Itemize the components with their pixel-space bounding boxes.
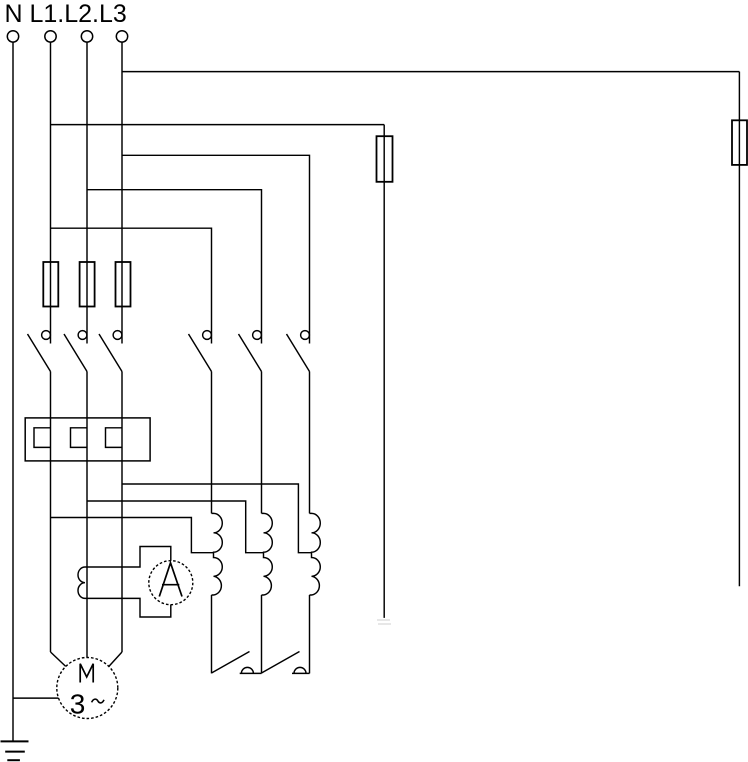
wire winding 2 tap to phase 2 xyxy=(87,501,264,553)
motor label tilde xyxy=(92,699,104,703)
wire tap L1 to control fuse xyxy=(51,124,385,126)
breaker QF pole 2 contact xyxy=(64,331,87,372)
wire control feeder right vertical xyxy=(738,72,740,587)
wire tap L3 to contactor pole 3 xyxy=(122,155,310,343)
wire tap L2 to contactor pole 2 xyxy=(87,190,262,344)
fuse FU4 xyxy=(377,136,393,182)
terminal N xyxy=(7,31,18,42)
wire winding 3 tap to phase 3 xyxy=(122,484,312,553)
wire winding 2 bottom xyxy=(261,595,263,673)
wire tap L3 to control fuse right xyxy=(122,71,739,73)
wire L1 vertical lower xyxy=(50,372,52,653)
wire neutral to motor xyxy=(13,697,59,699)
thermal relay FR heater 3 xyxy=(106,428,123,448)
wire N vertical xyxy=(12,42,14,741)
wire contactor pole 1 to winding 1 xyxy=(211,372,213,514)
wire L3 vertical upper xyxy=(121,42,123,343)
wire winding 1 bottom xyxy=(211,595,213,673)
contactor KM2 star contact 1 xyxy=(212,652,262,674)
wire TA to ammeter bottom xyxy=(85,598,171,617)
wire tap L1 to contactor pole 1 xyxy=(51,228,212,343)
terminal L1 xyxy=(45,31,56,42)
fuse FU2 xyxy=(80,262,95,307)
fuse FU3 xyxy=(116,262,131,307)
wire L3 vertical lower xyxy=(121,372,123,653)
node wire-number faint mark xyxy=(377,620,391,624)
contactor KM1 pole 2 contact xyxy=(239,331,262,372)
wire contactor pole 3 to winding 3 xyxy=(309,372,311,514)
wire L2 vertical lower xyxy=(86,372,88,658)
autotransformer winding 1 xyxy=(212,513,223,595)
autotransformer winding 3 xyxy=(310,513,321,595)
breaker QF pole 1 contact xyxy=(28,331,51,372)
thermal relay FR heater 1 xyxy=(34,428,51,448)
ammeter PA circle xyxy=(149,561,193,605)
terminal L3 xyxy=(116,31,127,42)
wire motor lead 1 diagonal xyxy=(51,652,66,666)
wire L2 vertical upper xyxy=(86,42,88,343)
fuse FU1 xyxy=(43,262,58,307)
wire winding 3 bottom xyxy=(309,595,311,673)
ground earth bar 1 xyxy=(1,740,29,742)
motor M circle xyxy=(57,658,118,719)
thermal relay FR box xyxy=(25,418,150,461)
current transformer TA winding xyxy=(78,567,85,598)
svg-text:3: 3 xyxy=(70,689,86,720)
contactor KM2 star contact 2 xyxy=(262,652,310,674)
thermal relay FR heater 2 xyxy=(71,428,88,448)
fuse FU5 xyxy=(732,120,747,165)
wire motor lead 3 diagonal xyxy=(109,652,122,666)
motor letter M xyxy=(80,664,93,683)
ground earth bar 2 xyxy=(5,751,25,753)
contactor KM1 pole 3 contact xyxy=(287,331,310,372)
breaker QF pole 3 contact xyxy=(99,331,122,372)
autotransformer winding 2 xyxy=(262,513,273,595)
wire L1 vertical upper xyxy=(50,42,52,343)
svg-text:N L1.L2.L3: N L1.L2.L3 xyxy=(5,0,127,28)
wire control feeder vertical xyxy=(383,125,385,618)
ground earth bar 3 xyxy=(7,759,20,761)
contactor KM1 pole 1 contact xyxy=(189,331,212,372)
wire contactor pole 2 to winding 2 xyxy=(261,372,263,514)
wire TA to ammeter top xyxy=(85,547,171,568)
ammeter PA letter A xyxy=(159,563,182,597)
terminal L2 xyxy=(81,31,92,42)
wire winding 1 tap to phase 1 xyxy=(51,518,214,553)
